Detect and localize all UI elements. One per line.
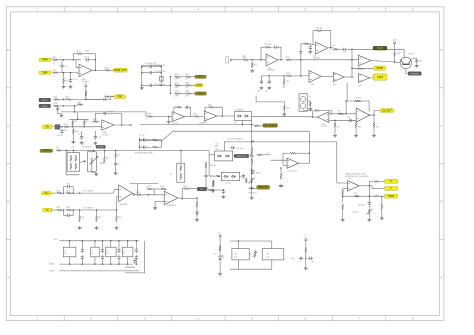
svg-text:U8 AD8429: U8 AD8429: [119, 203, 128, 206]
svg-text:C14 100nF 16V: C14 100nF 16V: [154, 65, 167, 67]
svg-text:VIN: VIN: [45, 127, 49, 129]
svg-text:6: 6: [305, 8, 307, 12]
svg-text:ACTIVE GUARD: ACTIVE GUARD: [228, 138, 243, 141]
svg-text:U6 BAV99: U6 BAV99: [235, 109, 244, 112]
svg-text:DGND: DGND: [49, 271, 55, 273]
svg-text:AVSS: AVSS: [42, 105, 48, 108]
svg-text:U11 LT1013: U11 LT1013: [288, 170, 297, 172]
svg-text:1: 1: [37, 8, 39, 12]
svg-text:49R9: 49R9: [175, 79, 179, 81]
svg-text:OUT_SENSE-: OUT_SENSE-: [83, 207, 94, 209]
svg-text:R51: R51: [254, 65, 257, 67]
svg-text:opto: opto: [215, 148, 219, 151]
svg-text:49R9: 49R9: [175, 95, 179, 97]
svg-text:B: B: [7, 200, 9, 204]
svg-text:C50: C50: [117, 164, 120, 166]
svg-text:R64 10k: R64 10k: [353, 211, 359, 213]
svg-text:4: 4: [197, 317, 199, 321]
svg-text:8: 8: [412, 8, 414, 12]
svg-text:R50: R50: [286, 81, 289, 83]
svg-text:TMON: TMON: [376, 68, 383, 70]
svg-text:R58 10k: R58 10k: [355, 98, 362, 100]
svg-text:Q2: Q2: [309, 96, 311, 98]
svg-text:AGND: AGND: [98, 146, 105, 149]
svg-text:AGND: AGND: [256, 171, 262, 174]
svg-text:R58: R58: [396, 54, 399, 56]
svg-text:C15 100nF 16V: C15 100nF 16V: [154, 71, 167, 73]
svg-text:HEATER: HEATER: [410, 72, 419, 75]
svg-text:8: 8: [412, 317, 414, 321]
svg-text:+IN_F: +IN_F: [197, 77, 204, 79]
svg-text:ADA4522: ADA4522: [313, 57, 320, 60]
svg-text:TMP+: TMP+: [42, 60, 49, 62]
svg-text:R47: R47: [98, 217, 101, 219]
svg-text:U14: U14: [311, 84, 314, 86]
svg-text:R34: R34: [78, 102, 81, 104]
svg-text:R71: R71: [106, 158, 109, 160]
svg-text:C60 100n: C60 100n: [358, 204, 365, 206]
svg-text:buf: buf: [333, 84, 336, 86]
svg-text:U15: U15: [348, 178, 351, 180]
svg-text:6: 6: [305, 317, 307, 321]
svg-text:GUARD: GUARD: [199, 122, 206, 125]
svg-text:R37: R37: [86, 121, 89, 123]
svg-text:1k: 1k: [53, 75, 55, 77]
svg-text:+15V: +15V: [392, 40, 397, 42]
svg-text:AGND: AGND: [49, 263, 55, 266]
svg-text:MAX6133: MAX6133: [237, 155, 247, 158]
svg-text:C46: C46: [419, 60, 422, 62]
svg-text:HEAT: HEAT: [377, 47, 384, 50]
svg-text:C10 1n: C10 1n: [84, 57, 90, 59]
svg-text:C45: C45: [343, 52, 346, 54]
svg-text:C38: C38: [98, 137, 101, 139]
svg-text:LT1013: LT1013: [103, 134, 109, 136]
svg-text:C36 10u: C36 10u: [57, 135, 64, 137]
svg-text:1: 1: [37, 317, 39, 321]
svg-text:49R9: 49R9: [175, 87, 179, 89]
svg-text:tp: tp: [267, 152, 269, 155]
svg-text:U8 opto: U8 opto: [225, 181, 231, 184]
svg-text:C52: C52: [210, 176, 213, 178]
svg-text:C12 1u: C12 1u: [72, 79, 78, 81]
svg-text:4: 4: [197, 8, 199, 12]
svg-text:dcdc: dcdc: [266, 256, 270, 258]
svg-text:R70: R70: [56, 147, 59, 149]
svg-text:C40: C40: [291, 258, 294, 260]
svg-text:TMP-: TMP-: [42, 73, 48, 75]
svg-text:B: B: [441, 200, 443, 204]
svg-text:buf: buf: [359, 85, 362, 87]
svg-text:5: 5: [251, 317, 253, 321]
svg-text:R48: R48: [118, 217, 121, 219]
svg-text:3: 3: [144, 8, 146, 12]
svg-text:IN: IN: [46, 210, 49, 212]
svg-text:R61: R61: [376, 127, 379, 129]
svg-text:R57: R57: [338, 111, 341, 113]
svg-text:R46: R46: [81, 217, 84, 219]
svg-text:AVDD: AVDD: [42, 99, 48, 102]
svg-text:K2: K2: [170, 174, 172, 176]
svg-text:R59: R59: [337, 127, 340, 129]
svg-text:2: 2: [90, 317, 92, 321]
svg-text:ACTIVE SHIELD DRV: ACTIVE SHIELD DRV: [135, 152, 153, 155]
svg-text:7: 7: [358, 8, 360, 12]
svg-text:1k: 1k: [53, 63, 55, 65]
svg-text:3: 3: [144, 317, 146, 321]
svg-text:U16: U16: [234, 254, 237, 256]
svg-text:100k: 100k: [85, 51, 89, 53]
svg-text:ADA4522: ADA4522: [268, 68, 275, 71]
svg-text:C44: C44: [347, 117, 350, 119]
svg-text:49R9: 49R9: [64, 130, 68, 132]
svg-text:-IN_S: -IN_S: [198, 93, 204, 95]
svg-text:T-: T-: [390, 188, 392, 190]
svg-text:C37: C37: [78, 134, 81, 136]
svg-text:+v: +v: [303, 236, 305, 238]
svg-text:Q1: Q1: [399, 52, 401, 54]
svg-text:R53 1M: R53 1M: [265, 44, 272, 46]
svg-text:R57: R57: [333, 45, 336, 47]
svg-text:REF_5V: REF_5V: [259, 187, 268, 189]
svg-text:10k: 10k: [243, 55, 246, 57]
svg-text:R72: R72: [117, 155, 120, 157]
svg-text:U17: U17: [266, 254, 269, 256]
svg-text:+SNS: +SNS: [196, 85, 203, 87]
svg-text:LM_OUT: LM_OUT: [382, 110, 392, 112]
svg-text:AGND: AGND: [279, 185, 285, 188]
svg-text:LMP_FORCE: LMP_FORCE: [263, 125, 278, 127]
svg-text:C39 1u: C39 1u: [109, 111, 115, 113]
svg-text:CONFIG: CONFIG: [42, 151, 51, 153]
svg-text:R63: R63: [354, 193, 357, 195]
svg-text:R55 1M: R55 1M: [316, 27, 323, 29]
svg-text:dcdc: dcdc: [234, 256, 238, 258]
svg-text:TEMP_OUT: TEMP_OUT: [114, 70, 127, 72]
svg-text:TREF: TREF: [388, 196, 395, 198]
svg-text:BD139: BD139: [409, 54, 414, 56]
svg-text:C31: C31: [265, 91, 268, 93]
svg-text:R60: R60: [358, 127, 361, 129]
svg-text:+15V: +15V: [53, 239, 58, 241]
svg-text:PTAT: PTAT: [117, 95, 123, 98]
svg-text:R44: R44: [286, 107, 289, 109]
svg-text:7: 7: [358, 317, 360, 321]
svg-text:2: 2: [90, 8, 92, 12]
svg-text:LT1013: LT1013: [322, 126, 328, 128]
svg-text:RV1: RV1: [88, 150, 91, 152]
svg-text:TSET: TSET: [377, 77, 384, 79]
svg-text:U9 AD8628: U9 AD8628: [166, 204, 175, 207]
svg-text:R35: R35: [74, 121, 77, 123]
svg-text:REF_ADJ: REF_ADJ: [249, 191, 257, 194]
svg-text:R C filt: R C filt: [139, 134, 145, 137]
svg-text:K1: K1: [67, 151, 69, 153]
svg-text:C18 100n: C18 100n: [236, 148, 244, 150]
svg-text:OUT_SENSE+: OUT_SENSE+: [83, 190, 94, 192]
svg-text:VO+: VO+: [44, 193, 49, 195]
svg-text:R38 10k: R38 10k: [210, 165, 216, 167]
svg-text:U4 buf: U4 buf: [173, 123, 179, 125]
svg-text:D1: D1: [214, 254, 216, 256]
svg-text:5: 5: [251, 8, 253, 12]
svg-text:C30: C30: [257, 91, 260, 93]
